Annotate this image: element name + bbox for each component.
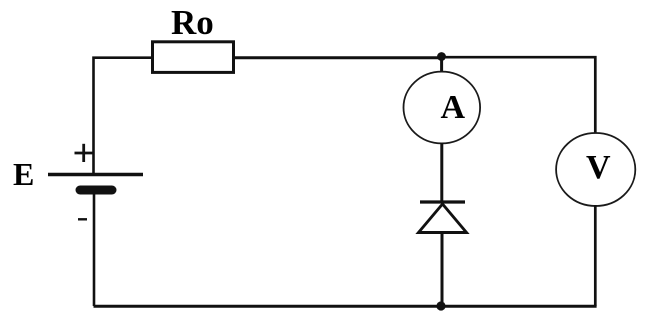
diode D1 triangle (anode, pointing up) [419, 204, 467, 233]
node B (bottom junction dot) [436, 301, 445, 310]
wire: battery - terminal down to bottom wire [93, 194, 96, 306]
battery E: long positive plate [48, 173, 143, 176]
voltmeter V1 circle [556, 133, 635, 206]
minus sign at battery negative [78, 218, 87, 220]
voltmeter label V [586, 149, 611, 186]
svg-text:A: A [441, 89, 466, 126]
wire: diode anode down to node B [441, 234, 444, 306]
plus sign at battery positive [75, 144, 94, 162]
wire stub: node A down to ammeter top [440, 56, 443, 73]
wire: voltmeter bottom to bottom-right corner [594, 205, 597, 306]
ammeter A1 circle [404, 72, 481, 144]
battery E: short thick negative plate [80, 186, 112, 195]
svg-text:V: V [586, 149, 611, 186]
node A (top junction dot) [437, 52, 446, 61]
resistor label Ro [171, 3, 214, 42]
wire: node A right to top-right corner, down to voltmeter [441, 57, 595, 134]
wire left: battery + terminal up to top-left corner, right to resistor [94, 58, 153, 174]
wire: resistor right to node A [233, 56, 441, 59]
diode D1 cathode bar [420, 200, 465, 203]
svg-text:E: E [13, 156, 34, 192]
resistor R0 body [153, 42, 234, 73]
battery label E [13, 156, 34, 192]
ammeter label A [441, 89, 466, 126]
bottom wire: battery - to bottom-right corner [94, 305, 597, 308]
svg-text:Ro: Ro [171, 3, 214, 42]
wire: ammeter bottom down to diode cathode bar [440, 143, 443, 202]
